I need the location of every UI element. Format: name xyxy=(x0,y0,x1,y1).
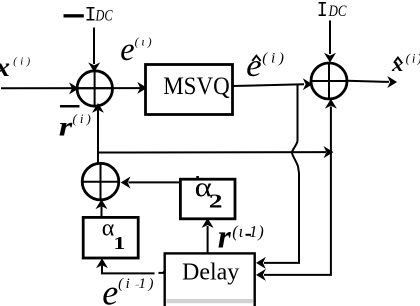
svg-text:(i): (i) xyxy=(73,112,91,126)
svg-text:e: e xyxy=(246,47,262,83)
svg-text:r: r xyxy=(59,111,73,141)
svg-text:(i): (i) xyxy=(406,51,420,65)
svg-text:Delay: Delay xyxy=(182,259,239,285)
svg-text:DC: DC xyxy=(95,8,113,25)
svg-text:x: x xyxy=(0,52,10,82)
svg-text:(i): (i) xyxy=(13,57,30,68)
svg-text:e: e xyxy=(120,31,134,67)
svg-text:r: r xyxy=(218,220,231,256)
svg-text:2: 2 xyxy=(209,191,223,213)
svg-text:(i): (i) xyxy=(262,50,284,67)
svg-text:1: 1 xyxy=(113,233,125,253)
svg-text:DC: DC xyxy=(328,3,347,20)
svg-text:MSVQ: MSVQ xyxy=(163,71,230,100)
svg-text:(ι 1): (ι 1) xyxy=(232,222,264,241)
svg-text:e: e xyxy=(102,273,118,306)
svg-text:(ι): (ι) xyxy=(135,35,152,49)
svg-text:I: I xyxy=(317,0,328,23)
